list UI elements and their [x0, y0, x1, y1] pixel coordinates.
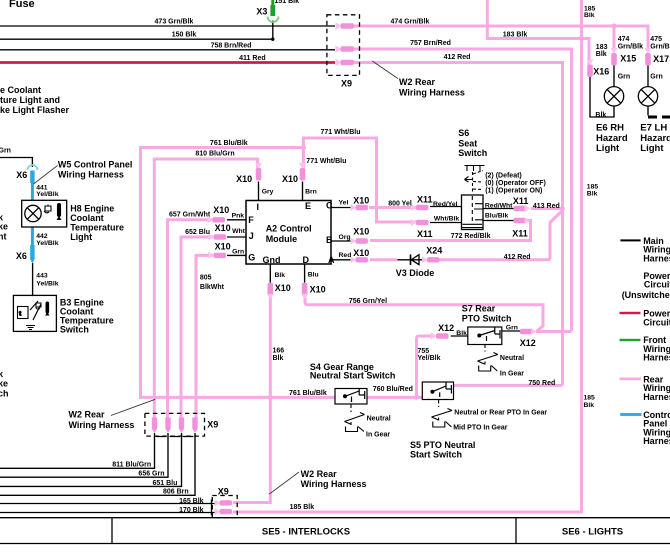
- svg-text:Circuit: Circuit: [644, 279, 670, 289]
- svg-text:Blk: Blk: [273, 355, 284, 362]
- svg-text:413 Red: 413 Red: [533, 203, 560, 210]
- svg-text:166: 166: [273, 347, 285, 354]
- svg-text:Temperature: Temperature: [70, 223, 124, 233]
- svg-text:Red: Red: [339, 252, 352, 259]
- svg-text:X10: X10: [275, 283, 291, 293]
- svg-text:758 Brn/Red: 758 Brn/Red: [211, 43, 252, 50]
- svg-text:SE6 - LIGHTS: SE6 - LIGHTS: [562, 527, 623, 538]
- svg-text:Blk: Blk: [584, 12, 595, 19]
- svg-text:Coolant: Coolant: [70, 213, 104, 223]
- svg-text:X6: X6: [16, 251, 27, 261]
- svg-text:(1) (Operator ON): (1) (Operator ON): [485, 188, 542, 195]
- svg-text:X12: X12: [438, 323, 454, 333]
- svg-text:Blk: Blk: [587, 190, 598, 197]
- svg-text:W2 Rear: W2 Rear: [69, 410, 106, 420]
- svg-text:756 Grn/Yel: 756 Grn/Yel: [349, 298, 387, 305]
- svg-text:X10: X10: [215, 242, 231, 252]
- svg-text:Grn: Grn: [232, 248, 244, 255]
- svg-text:Grn: Grn: [0, 148, 11, 155]
- svg-text:X6: X6: [16, 170, 27, 180]
- svg-text:X15: X15: [620, 54, 636, 64]
- svg-text:656 Grn: 656 Grn: [138, 471, 164, 478]
- svg-text:170 Blk: 170 Blk: [179, 507, 204, 514]
- svg-text:X12: X12: [520, 338, 536, 348]
- svg-text:Yel/Blk: Yel/Blk: [36, 280, 59, 287]
- svg-text:X24: X24: [426, 246, 442, 256]
- svg-text:Grn/Blk: Grn/Blk: [650, 43, 670, 50]
- svg-text:X17: X17: [653, 54, 669, 64]
- svg-text:BlkWht: BlkWht: [200, 284, 225, 291]
- svg-text:X11: X11: [417, 195, 433, 205]
- svg-text:X10: X10: [353, 195, 369, 205]
- svg-text:S6: S6: [458, 128, 469, 138]
- svg-text:X3: X3: [256, 6, 267, 16]
- svg-text:810 Blu/Grn: 810 Blu/Grn: [195, 151, 234, 158]
- svg-text:805: 805: [200, 274, 212, 281]
- svg-text:E: E: [305, 201, 311, 211]
- svg-text:nt: nt: [0, 231, 7, 241]
- svg-text:Wht: Wht: [232, 228, 246, 235]
- svg-text:Light: Light: [640, 143, 664, 154]
- svg-text:e Coolant: e Coolant: [0, 85, 41, 95]
- svg-text:S5 PTO Neutral: S5 PTO Neutral: [410, 440, 475, 450]
- svg-text:761 Blu/Blk: 761 Blu/Blk: [210, 140, 248, 147]
- svg-text:ture Light and: ture Light and: [0, 95, 60, 105]
- svg-text:Wiring Harness: Wiring Harness: [301, 479, 367, 489]
- svg-text:D: D: [303, 255, 310, 265]
- svg-text:In Gear: In Gear: [366, 432, 390, 439]
- svg-text:443: 443: [36, 273, 48, 280]
- svg-text:Light: Light: [70, 232, 92, 242]
- svg-text:PTO Switch: PTO Switch: [462, 313, 512, 323]
- svg-text:771 Wht/Blu: 771 Wht/Blu: [306, 158, 346, 165]
- svg-text:ch: ch: [0, 388, 9, 398]
- svg-text:185 Blk: 185 Blk: [290, 504, 315, 511]
- svg-text:Blk: Blk: [275, 272, 286, 279]
- svg-text:Neutral or Rear PTO In Gear: Neutral or Rear PTO In Gear: [454, 409, 547, 416]
- svg-text:H8 Engine: H8 Engine: [70, 204, 114, 214]
- svg-text:Module: Module: [266, 234, 298, 244]
- svg-text:X9: X9: [218, 486, 229, 496]
- svg-text:X16: X16: [593, 67, 609, 77]
- svg-text:Light: Light: [596, 143, 620, 154]
- svg-text:X10: X10: [353, 226, 369, 236]
- svg-text:Grn: Grn: [618, 73, 630, 80]
- svg-text:757 Brn/Red: 757 Brn/Red: [410, 40, 451, 47]
- svg-text:150 Blk: 150 Blk: [172, 32, 197, 39]
- svg-text:Blk: Blk: [595, 112, 606, 119]
- svg-text:V3 Diode: V3 Diode: [396, 268, 435, 278]
- svg-text:X10: X10: [215, 223, 231, 233]
- svg-text:Harness: Harness: [643, 436, 670, 446]
- svg-text:Blk: Blk: [456, 330, 467, 337]
- svg-text:Brn: Brn: [305, 189, 317, 196]
- svg-text:Yel/Blk: Yel/Blk: [418, 355, 441, 362]
- svg-text:806 Brn: 806 Brn: [163, 489, 189, 496]
- svg-text:760 Blu/Red: 760 Blu/Red: [373, 386, 413, 393]
- svg-text:761 Blu/Blk: 761 Blu/Blk: [289, 390, 327, 397]
- svg-text:X10: X10: [282, 174, 298, 184]
- svg-text:Org: Org: [339, 234, 351, 241]
- svg-text:474 Grn/Blk: 474 Grn/Blk: [391, 19, 430, 26]
- svg-text:Start Switch: Start Switch: [410, 450, 462, 460]
- svg-text:Pnk: Pnk: [232, 213, 245, 220]
- svg-text:811 Blu/Grn: 811 Blu/Grn: [112, 462, 151, 469]
- svg-text:Blk: Blk: [596, 51, 607, 58]
- svg-text:S7 Rear: S7 Rear: [462, 303, 496, 313]
- svg-text:Harness: Harness: [643, 253, 670, 263]
- svg-text:Red/Yel: Red/Yel: [433, 201, 458, 208]
- svg-text:Gnd: Gnd: [263, 255, 281, 265]
- svg-text:X11: X11: [417, 229, 433, 239]
- svg-text:772 Red/Blk: 772 Red/Blk: [451, 233, 491, 240]
- svg-text:F: F: [248, 215, 254, 225]
- svg-text:Mid PTO In Gear: Mid PTO In Gear: [453, 424, 508, 431]
- svg-text:411 Red: 411 Red: [239, 55, 265, 62]
- svg-text:185: 185: [584, 395, 596, 402]
- svg-text:X11: X11: [512, 229, 528, 239]
- svg-text:Harness: Harness: [643, 392, 670, 402]
- svg-text:ke Light Flasher: ke Light Flasher: [0, 105, 70, 115]
- svg-text:X10: X10: [236, 174, 252, 184]
- svg-text:Seat: Seat: [458, 138, 477, 148]
- svg-text:183 Blk: 183 Blk: [503, 31, 528, 38]
- svg-text:771 Wht/Blu: 771 Wht/Blu: [320, 129, 360, 136]
- svg-text:Wiring Harness: Wiring Harness: [58, 170, 124, 180]
- svg-text:X11: X11: [513, 196, 529, 206]
- svg-text:Neutral: Neutral: [500, 355, 524, 362]
- svg-text:X9: X9: [341, 79, 352, 89]
- svg-text:Neutral Start Switch: Neutral Start Switch: [310, 371, 396, 381]
- svg-text:Harness: Harness: [643, 353, 670, 363]
- svg-text:750 Red: 750 Red: [528, 380, 555, 387]
- svg-text:755: 755: [418, 348, 430, 355]
- svg-text:X10: X10: [213, 205, 229, 215]
- svg-text:474: 474: [618, 36, 630, 43]
- svg-text:473 Grn/Blk: 473 Grn/Blk: [155, 19, 194, 26]
- svg-text:Red/Wht: Red/Wht: [485, 203, 513, 210]
- svg-text:ke: ke: [0, 378, 8, 388]
- svg-text:ke: ke: [0, 222, 8, 232]
- svg-text:In Gear: In Gear: [500, 370, 524, 377]
- svg-text:X9: X9: [207, 419, 218, 429]
- svg-text:165 Blk: 165 Blk: [179, 498, 204, 505]
- svg-text:W2 Rear: W2 Rear: [301, 469, 338, 479]
- svg-text:(Unswitched): (Unswitched): [622, 290, 670, 300]
- svg-text:Switch: Switch: [458, 148, 487, 158]
- svg-text:X10: X10: [353, 248, 369, 258]
- svg-text:151 Blk: 151 Blk: [275, 0, 300, 5]
- svg-text:Grn/Blk: Grn/Blk: [618, 43, 643, 50]
- svg-text:475: 475: [650, 36, 662, 43]
- svg-text:Wiring Harness: Wiring Harness: [69, 420, 135, 430]
- svg-text:Circuit: Circuit: [643, 318, 670, 328]
- svg-text:Grn: Grn: [506, 324, 518, 331]
- svg-text:A2 Control: A2 Control: [266, 224, 312, 234]
- svg-text:J: J: [249, 231, 254, 241]
- svg-text:SE5 - INTERLOCKS: SE5 - INTERLOCKS: [262, 527, 350, 538]
- svg-text:C: C: [326, 201, 333, 211]
- svg-text:Blu: Blu: [308, 272, 319, 279]
- svg-text:652 Blu: 652 Blu: [185, 229, 210, 236]
- svg-text:(0) (Operator OFF): (0) (Operator OFF): [485, 180, 546, 187]
- svg-text:X10: X10: [310, 284, 326, 294]
- svg-text:Yel: Yel: [339, 199, 349, 206]
- svg-text:Blk: Blk: [584, 402, 595, 409]
- svg-text:Gry: Gry: [262, 189, 274, 196]
- svg-text:Fuse: Fuse: [9, 0, 35, 10]
- svg-text:Yel/Blk: Yel/Blk: [36, 240, 59, 247]
- svg-text:412 Red: 412 Red: [444, 54, 471, 61]
- svg-text:(2) (Defeat): (2) (Defeat): [485, 172, 522, 179]
- svg-text:657 Grn/Wht: 657 Grn/Wht: [169, 212, 211, 219]
- svg-text:A: A: [328, 255, 335, 265]
- svg-text:Blu/Blk: Blu/Blk: [485, 213, 509, 220]
- svg-text:Wht/Blk: Wht/Blk: [434, 215, 460, 222]
- svg-text:800 Yel: 800 Yel: [388, 201, 412, 208]
- svg-text:W5 Control Panel: W5 Control Panel: [58, 160, 133, 170]
- svg-text:412 Red: 412 Red: [504, 254, 531, 261]
- svg-text:B: B: [326, 235, 333, 245]
- svg-text:651 Blu: 651 Blu: [152, 480, 177, 487]
- svg-text:Neutral: Neutral: [367, 415, 391, 422]
- svg-text:Grn: Grn: [650, 73, 662, 80]
- svg-text:Yel/Blk: Yel/Blk: [36, 191, 59, 198]
- svg-text:I: I: [257, 202, 260, 212]
- svg-text:Wiring Harness: Wiring Harness: [399, 88, 465, 98]
- svg-text:G: G: [248, 252, 255, 262]
- svg-text:Switch: Switch: [60, 325, 89, 335]
- svg-text:W2 Rear: W2 Rear: [399, 77, 436, 87]
